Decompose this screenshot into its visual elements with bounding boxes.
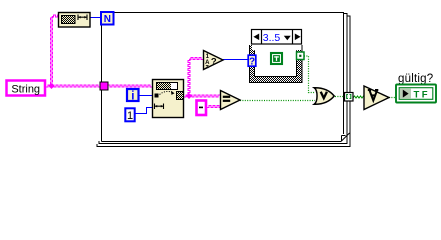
wire: Or output to loop tunnel (green dotted) <box>335 96 344 98</box>
boolean indicator TF <box>396 85 436 103</box>
loop output tunnel [] <box>345 93 354 102</box>
wire: i terminal to String Subset (blue) <box>139 95 152 97</box>
case structure border <box>249 45 303 83</box>
boolean constant T <box>271 53 282 64</box>
svg-text:?: ? <box>249 57 255 68</box>
String control <box>7 81 46 96</box>
wire: string from control to String Subset (pink square-wave) <box>46 85 152 87</box>
wire: substring output to Equal (pink) <box>184 95 220 97</box>
junction on substring wire <box>186 93 192 99</box>
indicator label gueltig? <box>398 73 433 85</box>
iteration terminal i <box>127 89 139 103</box>
wire: Equal output to Or bottom input (green dotted) <box>240 100 315 102</box>
for loop border sheet 3 (back) <box>97 16 350 147</box>
svg-text:1: 1 <box>127 110 133 122</box>
string tunnel on loop border <box>100 82 108 90</box>
case selector label 3..5 <box>252 30 302 45</box>
svg-text:3..5: 3..5 <box>263 32 281 44</box>
for loop border sheet 2 (middle) <box>99 14 347 144</box>
svg-text:gültig?: gültig? <box>398 73 433 85</box>
wire: constant 1 to String Subset (blue) <box>135 108 152 114</box>
wire: boolean array from loop tunnel to And Array Elements (green zigzag) <box>353 96 365 98</box>
numeric constant 1 <box>125 108 134 122</box>
wire: Lexical Class to case selector (blue) <box>223 59 249 61</box>
String Length function <box>59 13 91 28</box>
minus string constant <box>197 101 207 116</box>
wire: T constant to case tunnel (green dotted) <box>283 57 296 59</box>
svg-text:T: T <box>414 90 420 101</box>
svg-text:?: ? <box>211 57 217 68</box>
Or function <box>314 88 334 104</box>
svg-text:N: N <box>104 14 111 25</box>
svg-text:F: F <box>422 90 428 101</box>
wire: string branch up to String Length <box>51 15 59 86</box>
wire: And Array Elements to indicator (green dotted) <box>389 97 396 99</box>
case selector terminal ? <box>248 55 256 67</box>
wire: case tunnel to Or top input (green dotted) <box>304 56 315 93</box>
wire: String Length to N (blue) <box>90 17 101 19</box>
wire: minus constant to Equal (pink) <box>207 106 220 108</box>
String Subset function <box>153 80 184 118</box>
wire: branch up to Lexical Class <box>188 58 203 97</box>
loop count terminal N <box>101 12 114 25</box>
for loop folded corner (dog-ear) <box>341 133 350 142</box>
junction on string wire <box>49 83 55 89</box>
svg-text:i: i <box>131 91 134 103</box>
svg-text:String: String <box>11 84 40 96</box>
Lexical Class function <box>204 51 224 70</box>
Equal? function <box>221 91 241 110</box>
for loop N main frame <box>102 13 344 142</box>
case output tunnel <box>297 52 305 60</box>
And Array Elements function <box>364 86 389 110</box>
